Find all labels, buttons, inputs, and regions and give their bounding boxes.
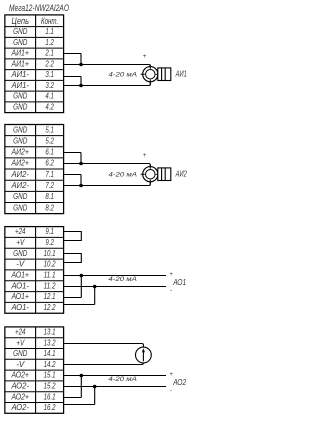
svg-text:АИ2-: АИ2- <box>11 180 30 190</box>
svg-text:+: + <box>143 152 147 159</box>
wire -V loop (AO2) <box>64 362 144 365</box>
row line above 9.2 <box>5 236 64 238</box>
wire AI2- to sensor <box>64 181 151 186</box>
row line above 3.1 <box>5 69 64 71</box>
wire AI1- to sensor <box>64 81 151 86</box>
svg-text:АО1: АО1 <box>172 278 186 287</box>
svg-text:АО2: АО2 <box>172 378 186 387</box>
svg-text:АИ1+: АИ1+ <box>11 48 29 58</box>
terminal block X1 (AI1): frame <box>5 15 64 113</box>
svg-text:АИ1-: АИ1- <box>11 80 30 90</box>
svg-text:АО2-: АО2- <box>11 381 30 391</box>
wire AO1- output <box>64 286 166 288</box>
row line above 10.2 <box>5 258 64 260</box>
junction AO1- <box>93 285 97 289</box>
svg-text:4-20 мА: 4-20 мА <box>108 376 137 383</box>
svg-text:GND: GND <box>13 91 27 101</box>
wire +V loop (AO2) <box>64 344 144 348</box>
row line above 3.2 <box>5 79 64 81</box>
svg-text:4.1: 4.1 <box>45 91 54 101</box>
wire bracket vertical AI1+ <box>80 54 82 65</box>
sensor АИ1: body circle <box>143 67 158 82</box>
jumper GND to -V (AO1) <box>64 254 82 263</box>
current source symbol in AO2 loop: circle <box>136 347 152 363</box>
row line above 15.2 <box>5 380 64 382</box>
row line above 6.2 <box>5 157 64 159</box>
svg-text:Конт.: Конт. <box>41 16 58 26</box>
wire bracket vertical AO2- <box>94 387 96 405</box>
terminal block X3 (AO1): column divider <box>35 227 37 314</box>
svg-text:АО1-: АО1- <box>11 280 30 290</box>
wire stub AI1- upper contact <box>64 76 81 78</box>
junction AI1- <box>79 84 83 88</box>
svg-text:Цепь: Цепь <box>11 16 29 26</box>
svg-text:+24: +24 <box>15 327 26 337</box>
svg-text:АИ2: АИ2 <box>175 170 187 179</box>
svg-text:GND: GND <box>13 135 27 145</box>
terminal block X4 (AO2): column divider <box>35 327 37 413</box>
svg-text:АИ2+: АИ2+ <box>11 158 29 168</box>
wire bracket vertical AO2+ <box>80 376 82 398</box>
junction AO2- <box>93 385 97 389</box>
svg-text:14.2: 14.2 <box>44 359 56 369</box>
svg-text:13.2: 13.2 <box>44 337 56 347</box>
svg-text:GND: GND <box>13 101 27 111</box>
row line above 8.1 <box>5 190 64 192</box>
svg-text:16.1: 16.1 <box>44 391 56 401</box>
wire AI1+ to sensor <box>64 65 151 68</box>
wire AI2+ to sensor <box>64 164 151 168</box>
svg-text:АО1+: АО1+ <box>11 270 29 280</box>
row line above 5.2 <box>5 135 64 137</box>
svg-text:4-20 мА: 4-20 мА <box>108 276 137 283</box>
row line above 16.2 <box>5 402 64 404</box>
wire AO2- output <box>64 386 166 388</box>
wire stub AI2- upper contact <box>64 174 81 176</box>
svg-text:GND: GND <box>13 191 27 201</box>
row line above 16.1 <box>5 391 64 393</box>
wire bracket vertical AO1- <box>94 287 96 305</box>
svg-text:GND: GND <box>13 348 27 358</box>
svg-text:+: + <box>143 53 147 60</box>
wire bracket vertical AI2- <box>80 175 82 186</box>
svg-text:5.1: 5.1 <box>45 124 54 134</box>
row line above 8.2 <box>5 201 64 203</box>
row line above 15.1 <box>5 369 64 371</box>
svg-text:5.2: 5.2 <box>45 135 54 145</box>
sensor АИ2: rim ticks <box>141 165 160 186</box>
wire AO2+ output <box>64 375 166 377</box>
row line above 4.2 <box>5 101 64 103</box>
svg-text:-V: -V <box>16 359 25 369</box>
header row line <box>5 26 64 28</box>
terminal block X3 (AO1): frame <box>5 227 64 314</box>
svg-text:Мега12-NW2AI2AO: Мега12-NW2AI2AO <box>9 3 69 13</box>
row line above 12.2 <box>5 301 64 303</box>
svg-text:АО1-: АО1- <box>11 302 30 312</box>
svg-text:АИ1-: АИ1- <box>11 69 30 79</box>
svg-text:4-20 мА: 4-20 мА <box>109 172 138 179</box>
svg-text:АИ1: АИ1 <box>175 70 187 79</box>
svg-text:12.1: 12.1 <box>44 291 56 301</box>
svg-text:GND: GND <box>13 124 27 134</box>
svg-text:АО2-: АО2- <box>11 402 30 412</box>
svg-text:8.1: 8.1 <box>45 191 54 201</box>
svg-text:АО1+: АО1+ <box>11 291 29 301</box>
wire stub AI1+ upper contact <box>64 53 81 55</box>
svg-text:3.1: 3.1 <box>45 69 54 79</box>
svg-text:13.1: 13.1 <box>44 327 56 337</box>
junction AI1+ <box>79 63 83 67</box>
row line above 13.2 <box>5 337 64 339</box>
svg-text:10.1: 10.1 <box>44 248 56 258</box>
wire stub AO2+ lower contact <box>64 397 82 399</box>
wire AO1+ output <box>64 275 166 277</box>
row line above 7.1 <box>5 168 64 170</box>
svg-text:2.2: 2.2 <box>45 58 54 68</box>
current source symbol: arrow <box>142 351 144 362</box>
row line above 10.1 <box>5 247 64 249</box>
wire stub AO1- lower contact <box>64 304 95 306</box>
junction AI2+ <box>79 162 83 166</box>
svg-text:-V: -V <box>16 259 25 269</box>
svg-text:1.2: 1.2 <box>45 37 54 47</box>
svg-text:12.2: 12.2 <box>44 302 56 312</box>
wire stub AI2+ upper contact <box>64 152 81 154</box>
svg-text:10.2: 10.2 <box>44 259 56 269</box>
wire bracket vertical AI2+ <box>80 153 82 164</box>
row line above 6.1 <box>5 146 64 148</box>
row line above 2.1 <box>5 47 64 49</box>
svg-text:6.2: 6.2 <box>45 158 54 168</box>
wire stub AO1+ lower contact <box>64 297 82 299</box>
junction AI2- <box>79 184 83 188</box>
junction AO2+ <box>80 374 84 378</box>
row line above 11.2 <box>5 280 64 282</box>
terminal block X2 (AI2): column divider <box>35 125 37 214</box>
svg-text:АО2+: АО2+ <box>11 370 29 380</box>
svg-text:2.1: 2.1 <box>45 48 54 58</box>
svg-text:16.2: 16.2 <box>44 402 56 412</box>
svg-text:GND: GND <box>13 248 27 258</box>
svg-text:15.2: 15.2 <box>44 381 56 391</box>
row line above 14.1 <box>5 348 64 350</box>
svg-text:3.2: 3.2 <box>45 80 54 90</box>
svg-text:7.1: 7.1 <box>45 169 54 179</box>
svg-text:14.1: 14.1 <box>44 348 56 358</box>
jumper +24 to +V (AO1) <box>64 232 82 241</box>
terminal block X2 (AI2): frame <box>5 125 64 214</box>
svg-text:АИ2-: АИ2- <box>11 169 30 179</box>
svg-text:9.1: 9.1 <box>45 226 54 236</box>
svg-text:6.1: 6.1 <box>45 147 54 157</box>
row line above 7.2 <box>5 179 64 181</box>
svg-text:АИ1+: АИ1+ <box>11 58 29 68</box>
svg-text:4-20 мА: 4-20 мА <box>109 72 138 79</box>
svg-text:GND: GND <box>13 37 27 47</box>
svg-text:15.1: 15.1 <box>44 370 56 380</box>
wire stub AO2- lower contact <box>64 404 95 406</box>
terminal block X1 (AI1): column divider <box>35 15 37 113</box>
sensor АИ2: body circle <box>143 167 158 182</box>
svg-text:11.2: 11.2 <box>44 280 56 290</box>
sensor АИ1: rim ticks <box>141 65 160 86</box>
junction AO1+ <box>80 274 84 278</box>
row line above 14.2 <box>5 358 64 360</box>
svg-text:+V: +V <box>16 237 25 247</box>
svg-text:GND: GND <box>13 26 27 36</box>
sensor АИ1: terminal head box <box>158 68 171 81</box>
svg-text:8.2: 8.2 <box>45 202 54 212</box>
wire bracket vertical AI1- <box>80 77 82 86</box>
sensor АИ2: terminal head box <box>158 168 171 181</box>
row line above 12.1 <box>5 291 64 293</box>
svg-text:+24: +24 <box>15 226 26 236</box>
svg-text:+V: +V <box>16 337 25 347</box>
svg-text:11.1: 11.1 <box>44 270 56 280</box>
wire bracket vertical AO1+ <box>80 276 82 298</box>
svg-text:1.1: 1.1 <box>45 26 54 36</box>
svg-text:4.2: 4.2 <box>45 101 54 111</box>
svg-text:GND: GND <box>13 202 27 212</box>
terminal block X4 (AO2): frame <box>5 327 64 413</box>
row line above 11.1 <box>5 269 64 271</box>
row line above 4.1 <box>5 90 64 92</box>
svg-text:9.2: 9.2 <box>45 237 54 247</box>
row line above 2.2 <box>5 58 64 60</box>
row line above 1.2 <box>5 36 64 38</box>
svg-text:АО2+: АО2+ <box>11 391 29 401</box>
svg-text:АИ2+: АИ2+ <box>11 147 29 157</box>
svg-text:7.2: 7.2 <box>45 180 54 190</box>
